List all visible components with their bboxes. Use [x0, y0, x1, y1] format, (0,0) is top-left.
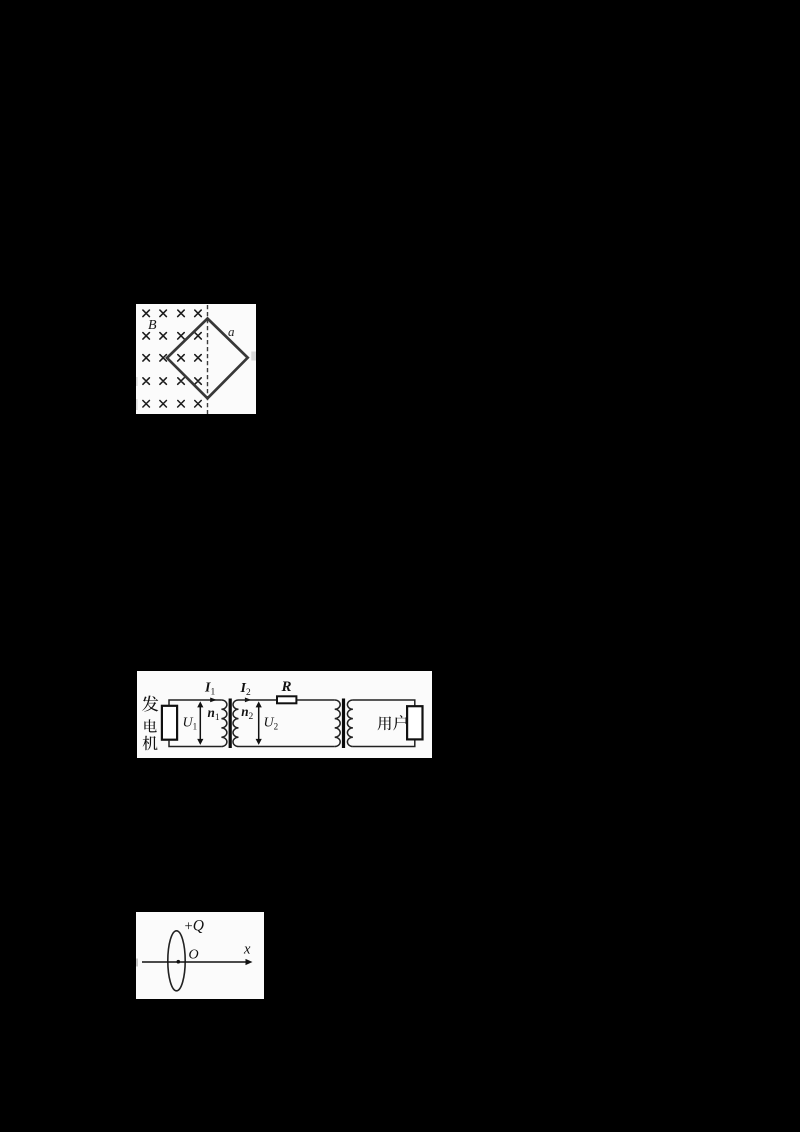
- T1 secondary coil n2: [233, 700, 239, 747]
- wire: T2 to load (bottom): [353, 740, 415, 747]
- T1 core: [229, 699, 232, 749]
- U1 voltage arrow: [199, 706, 201, 741]
- svg-text:R: R: [281, 679, 292, 695]
- T2 core: [342, 699, 345, 749]
- wire: middle bottom: [239, 746, 335, 748]
- U2 voltage arrow: [258, 706, 260, 741]
- wire: generator to primary (top): [169, 700, 221, 706]
- svg-text:I1: I1: [204, 681, 215, 698]
- wire: T2 to load (top): [353, 700, 415, 706]
- wire: R to T2 (top): [297, 699, 335, 701]
- svg-text:n1: n1: [208, 705, 220, 723]
- figure 2: power transmission circuit: [137, 671, 432, 758]
- I2 current arrow: [245, 698, 252, 703]
- svg-text:n2: n2: [241, 704, 253, 722]
- svg-text:x: x: [243, 941, 251, 957]
- origin dot: [177, 960, 181, 964]
- generator label 发电机: [142, 695, 158, 750]
- svg-text:O: O: [189, 948, 199, 963]
- square loop a (rotated 45 deg): [167, 319, 248, 399]
- load label 用户: [378, 715, 408, 730]
- wire: secondary top to R: [239, 699, 277, 701]
- wire: generator to primary (bottom): [169, 740, 221, 747]
- resistor R: [277, 696, 296, 703]
- I1 current arrow: [210, 698, 217, 703]
- svg-text:U1: U1: [183, 716, 198, 732]
- generator symbol: [162, 706, 177, 740]
- figure 3: charged ring on x axis: [136, 912, 264, 999]
- dashed symmetry line: [207, 305, 209, 414]
- T2 primary coil: [335, 700, 341, 747]
- figure 1: square loop in magnetic field: [136, 304, 256, 414]
- charged ring: [168, 931, 185, 991]
- scan tick left edge: [136, 959, 138, 967]
- svg-text:B: B: [148, 318, 157, 333]
- scan smudge right edge: [251, 352, 256, 361]
- svg-text:U2: U2: [264, 716, 279, 732]
- T1 primary coil n1: [221, 700, 227, 747]
- svg-text:I2: I2: [240, 681, 251, 698]
- flux crosses grid (field B into page): [143, 310, 201, 407]
- scan ticks left edge: [136, 377, 138, 386]
- x axis: [142, 961, 248, 963]
- svg-text:+Q: +Q: [185, 918, 204, 935]
- svg-text:a: a: [228, 324, 235, 339]
- T2 secondary coil: [347, 700, 352, 747]
- load resistor box: [407, 706, 422, 739]
